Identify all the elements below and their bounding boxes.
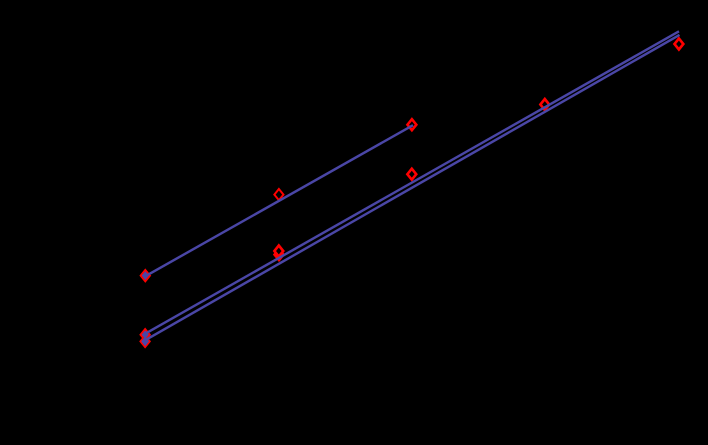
marker D3 open diamond (series 1, rightmost point) — [407, 119, 416, 130]
marker D1 filled diamond (series 1, leftmost point) — [141, 270, 151, 282]
marker D5 filled diamond (series 2, lower-left point) — [140, 336, 150, 348]
marker D6 open diamond (series 2) — [274, 246, 283, 257]
marker D4 filled diamond (series 2, upper-left point) — [140, 329, 150, 341]
marker D5 fill overlay (blue waist of overlapping diamonds) — [141, 337, 149, 347]
marker D7 open diamond (series 2) — [407, 169, 416, 180]
line series 2 upper line — [146, 31, 679, 333]
marker D6b open diamond (series 2, second point of close pair) — [275, 249, 284, 260]
marker D8 open diamond (series 2) — [540, 99, 549, 110]
line series 2 lower line — [146, 35, 680, 340]
line series 1 (short line through D1-D3) — [145, 125, 413, 276]
marker D2 open diamond (series 1, middle point) — [274, 189, 283, 200]
marker D9 open diamond (series 2, rightmost point) — [674, 39, 683, 50]
